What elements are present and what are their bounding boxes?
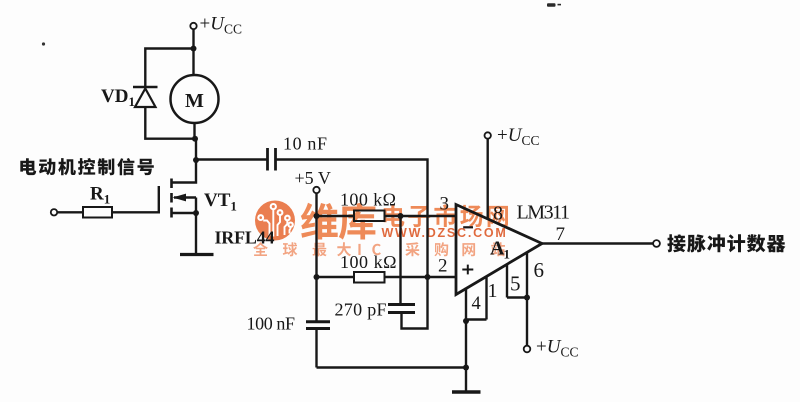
wire 10nF to vertical	[277, 160, 428, 278]
node dot pin2	[425, 274, 431, 280]
wire motor top	[192, 49, 194, 76]
node dot rail R3	[314, 274, 320, 280]
terminal +Ucc top	[190, 23, 196, 29]
svg-text:2: 2	[438, 256, 448, 277]
wire pin5-pin6 bar	[507, 296, 527, 298]
wire pin6	[526, 252, 528, 298]
op-amp A1 triangle	[456, 205, 542, 295]
input terminal circle	[51, 209, 57, 215]
node dot drain	[193, 157, 199, 163]
wire vertical below pin2 node to 270pF bottom	[402, 277, 428, 329]
node dot pin4	[463, 318, 469, 324]
svg-text:4: 4	[472, 294, 481, 314]
node dot ground	[463, 365, 469, 371]
watermark logo icon	[255, 201, 295, 241]
node dot top	[191, 46, 197, 52]
wire pin4-pin1 bar	[466, 318, 487, 320]
minus input mark	[463, 226, 473, 228]
label motor control signal	[20, 158, 154, 175]
ground under VT1	[180, 253, 214, 256]
wire pin8 Ucc	[485, 132, 491, 138]
svg-text:100 kΩ: 100 kΩ	[340, 252, 397, 272]
svg-text:R1: R1	[90, 184, 110, 207]
wire +5V rail down	[315, 193, 317, 320]
capacitor 10nF	[266, 148, 269, 171]
terminal output	[653, 240, 660, 247]
svg-text:5: 5	[510, 271, 521, 295]
svg-text:270 pF: 270 pF	[335, 300, 387, 320]
resistor R2 100k	[354, 211, 385, 222]
wire R2 to pin3	[385, 215, 457, 217]
svg-text:VD1: VD1	[101, 86, 135, 109]
capacitor 100nF	[306, 320, 330, 323]
terminal +Ucc bottom	[524, 346, 531, 353]
wire source down	[195, 213, 197, 254]
svg-text:6: 6	[534, 258, 545, 282]
terminal +5V	[313, 187, 319, 193]
svg-text:10 nF: 10 nF	[283, 134, 327, 154]
wire pin5	[506, 264, 508, 298]
plus input mark	[462, 265, 473, 275]
svg-text:1: 1	[488, 280, 498, 302]
wire node to diode branch top	[145, 49, 193, 89]
transistor VT1 source stub	[172, 198, 197, 214]
svg-text:8: 8	[493, 203, 503, 225]
ink/speck top-right	[547, 3, 561, 7]
watermark slogan	[253, 242, 505, 256]
motor M circle	[171, 75, 219, 123]
svg-text:7: 7	[556, 224, 566, 245]
wire 100nF bottom	[315, 330, 317, 368]
svg-text:LM311: LM311	[517, 202, 571, 224]
svg-text:IRFL44: IRFL44	[215, 228, 275, 248]
svg-text:100 kΩ: 100 kΩ	[340, 190, 396, 210]
diode VD1	[133, 86, 158, 89]
svg-text:M: M	[185, 90, 204, 112]
wire drain node to 10nF	[196, 158, 267, 160]
wire pin5/6 node to Ucc	[526, 298, 528, 346]
wire rail to R2	[317, 215, 355, 217]
wire Ucc down to node	[192, 29, 194, 49]
node dot pin5/6	[524, 295, 530, 301]
watermark main text	[301, 203, 376, 240]
wire rail to R3	[317, 276, 355, 278]
svg-text:+5 V: +5 V	[295, 168, 331, 188]
node dot motor bottom	[192, 136, 198, 142]
svg-text:+UCC: +UCC	[497, 125, 539, 148]
ground bottom	[465, 368, 467, 392]
resistor R1	[83, 207, 112, 218]
wire 270pF top lead	[399, 216, 401, 303]
wire bottom rail to ground	[317, 366, 467, 368]
label output to pulse counter	[667, 234, 785, 252]
node dot source	[193, 210, 199, 216]
svg-text:VT1: VT1	[204, 190, 237, 214]
wire pin4 node down	[465, 320, 467, 368]
wire pin1	[485, 277, 487, 320]
wire input to R1	[57, 211, 83, 213]
node dot 270pF top	[398, 213, 404, 219]
node dot rail R2	[314, 213, 320, 219]
wire output pin7	[542, 242, 653, 244]
svg-text:3: 3	[440, 194, 450, 215]
wire node to drain node	[195, 139, 197, 160]
resistor R3 100k	[354, 272, 385, 283]
svg-text:+UCC: +UCC	[200, 14, 242, 37]
svg-text:A1: A1	[490, 238, 510, 262]
wire R3 to pin2	[385, 276, 457, 278]
ink/speck top-left	[42, 42, 45, 45]
wire R1 to gate	[112, 186, 159, 212]
wire motor bottom	[193, 123, 195, 139]
svg-text:100 nF: 100 nF	[247, 314, 296, 334]
transistor VT1 channel bars	[170, 179, 173, 189]
transistor VT1 substrate arrow	[174, 196, 196, 198]
capacitor 270pF	[388, 303, 415, 306]
wire pin4	[465, 288, 467, 322]
wire diode to bottom node	[145, 107, 196, 139]
svg-text:+UCC: +UCC	[536, 337, 578, 360]
transistor VT1 drain stub	[172, 160, 197, 183]
